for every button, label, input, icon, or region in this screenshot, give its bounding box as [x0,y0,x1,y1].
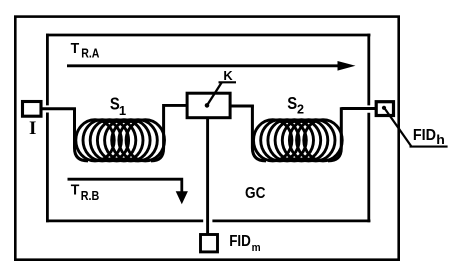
valve K pivot dot [205,103,210,108]
inner box left edge (gap at injector wire) [46,34,49,106]
coil S1 left drop wire [75,108,89,161]
detector FIDh box [376,102,393,116]
wire I to S1 [42,107,76,110]
inner box bottom edge (gap at FIDm wire) [46,219,203,222]
coil S1 loops [76,120,165,161]
K label underline [219,81,237,83]
svg-text:h: h [436,132,445,147]
inner box top edge [46,34,370,37]
wire S2 to FIDh [341,107,376,110]
FIDh pivot dot [382,106,386,110]
wire K to FIDm [206,117,209,235]
outer GC oven box [15,17,398,260]
svg-text:2: 2 [297,102,304,117]
FIDh label underline [410,146,448,148]
svg-text:R.A: R.A [81,46,100,61]
FIDh pointer diagonal [384,108,412,147]
svg-text:1: 1 [119,103,126,118]
detector FIDm box [201,235,218,252]
coil S1 right drop wire [151,104,164,161]
valve K box [187,93,230,118]
wire S1 to K [164,104,188,107]
svg-text:m: m [252,242,261,254]
coil S2 loops [254,120,343,161]
injector I box [23,102,42,117]
svg-text:T: T [71,40,80,57]
inner box right edge (gap at detector wire) [367,34,370,106]
svg-text:S: S [287,94,297,113]
valve K lever diagonal [207,82,222,105]
wire K to S2 [229,105,254,108]
svg-text:R.B: R.B [81,188,100,203]
arrow T_R.B [68,179,182,192]
coil S2 right drop wire [328,107,341,161]
svg-text:I: I [29,118,36,139]
svg-text:T: T [71,182,80,199]
svg-text:FID: FID [413,127,436,144]
svg-text:K: K [223,68,233,83]
arrow T_R.A [67,64,339,67]
svg-text:GC: GC [245,185,265,202]
svg-text:FID: FID [229,233,251,250]
coil S2 left drop wire [252,105,266,161]
